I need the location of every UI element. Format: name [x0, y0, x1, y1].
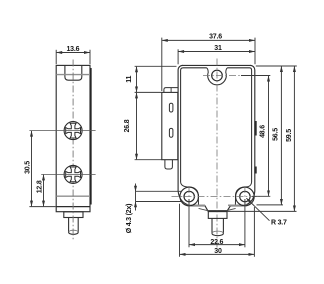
side front-face edge line (right, darker): [90, 68, 92, 205]
svg-text:26.8: 26.8: [124, 119, 131, 132]
barrel bottom back arc: [212, 231, 223, 233]
dim dia 4.3 (2x): [136, 184, 182, 211]
side mounting face line: [56, 206, 90, 208]
front connector step: [208, 212, 227, 219]
screw S1 (adjuster, phillips): [64, 122, 82, 140]
plate bottom tab: [165, 160, 173, 169]
svg-text:37.6: 37.6: [209, 33, 222, 40]
right ear crosshair vertical: [244, 186, 246, 208]
side plate top step inner tick: [170, 88, 172, 93]
dim 22.6: [189, 199, 245, 247]
top hole: [212, 70, 223, 81]
dim 26.8: [135, 93, 162, 160]
dim 12.8: [43, 175, 45, 206]
side body outline: [56, 65, 90, 211]
svg-text:30.5: 30.5: [25, 161, 32, 174]
front connector barrel: [212, 218, 223, 235]
left ear hole: [184, 191, 194, 201]
ears crosshair horizontal: [172, 196, 260, 198]
dim 13.6: [56, 50, 90, 64]
mounting face grey line left segment: [187, 204, 205, 206]
right ear hole: [240, 191, 250, 201]
screw S2 (phillips): [64, 165, 82, 183]
svg-text:56.5: 56.5: [273, 128, 280, 141]
top hole crosshair horizontal: [203, 75, 241, 77]
screw S2 centerline: [41, 173, 95, 175]
right ear outer circle: [236, 187, 255, 206]
right edge mark A: [254, 121, 256, 136]
svg-text:59.5: 59.5: [286, 129, 293, 142]
svg-text:12.8: 12.8: [36, 180, 43, 193]
right edge mark B: [254, 167, 256, 174]
svg-text:R 3.7: R 3.7: [271, 220, 287, 227]
dim 30: [180, 204, 255, 257]
left ear crosshair vertical: [188, 186, 190, 208]
dim 56.5: [256, 66, 297, 205]
side center line (vertical dash-dot): [72, 60, 74, 241]
dim 31: [178, 49, 255, 64]
dim 59.5: [227, 66, 297, 211]
front body outer outline: [178, 65, 255, 211]
inner contour of bottom dip: [199, 208, 236, 210]
inner contour wrap around right ear: [235, 182, 251, 206]
plate slot 2: [169, 128, 173, 137]
leader R 3.7: [246, 198, 269, 221]
dim 11: [135, 66, 177, 92]
side connector step: [64, 212, 83, 218]
top hole recess slot (side): [65, 65, 82, 80]
front center line: [216, 59, 218, 249]
dim 48.6: [241, 76, 270, 197]
plate slot 1: [169, 103, 173, 112]
dim 30.5: [29, 131, 55, 207]
screw S1 centerline: [29, 130, 95, 132]
svg-text:11: 11: [126, 75, 133, 82]
svg-text:13.6: 13.6: [66, 46, 79, 53]
dim 37.6: [162, 38, 255, 91]
svg-text:22.6: 22.6: [210, 239, 223, 246]
side plate top step: [164, 88, 178, 93]
svg-text:48.6: 48.6: [260, 125, 267, 138]
side connector barrel: [69, 218, 79, 235]
side grey line at screw plane: [56, 195, 90, 197]
side grey face line top: [56, 74, 90, 76]
left ear outer circle: [180, 187, 199, 206]
inner contour wrap around left ear: [181, 182, 199, 206]
front inner contour left with U-recess around top hole: [181, 68, 252, 182]
svg-text:30: 30: [214, 248, 222, 255]
svg-text:31: 31: [214, 45, 222, 52]
side barrel bottom back arc: [69, 230, 79, 232]
side plate body: [162, 92, 178, 159]
mounting face grey line right segment: [228, 204, 247, 206]
svg-text:Ø 4.3 (2x): Ø 4.3 (2x): [126, 204, 133, 234]
